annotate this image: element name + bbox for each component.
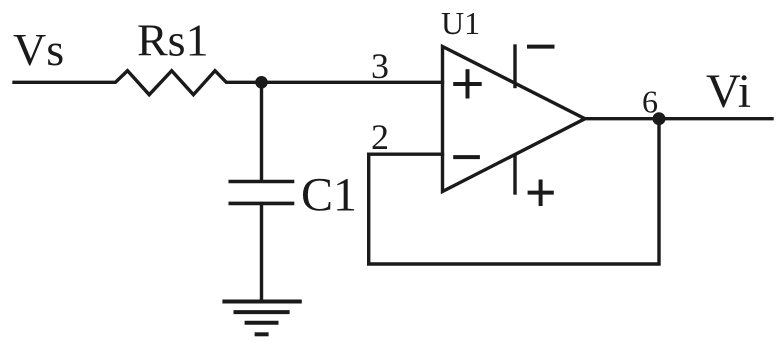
svg-text:6: 6 — [642, 83, 658, 119]
svg-text:C1: C1 — [301, 168, 357, 221]
svg-text:Vs: Vs — [13, 24, 64, 75]
svg-text:2: 2 — [371, 117, 389, 157]
svg-text:Rs1: Rs1 — [137, 15, 209, 66]
svg-text:U1: U1 — [441, 5, 480, 41]
svg-text:Vi: Vi — [706, 65, 751, 118]
svg-text:3: 3 — [371, 46, 389, 86]
